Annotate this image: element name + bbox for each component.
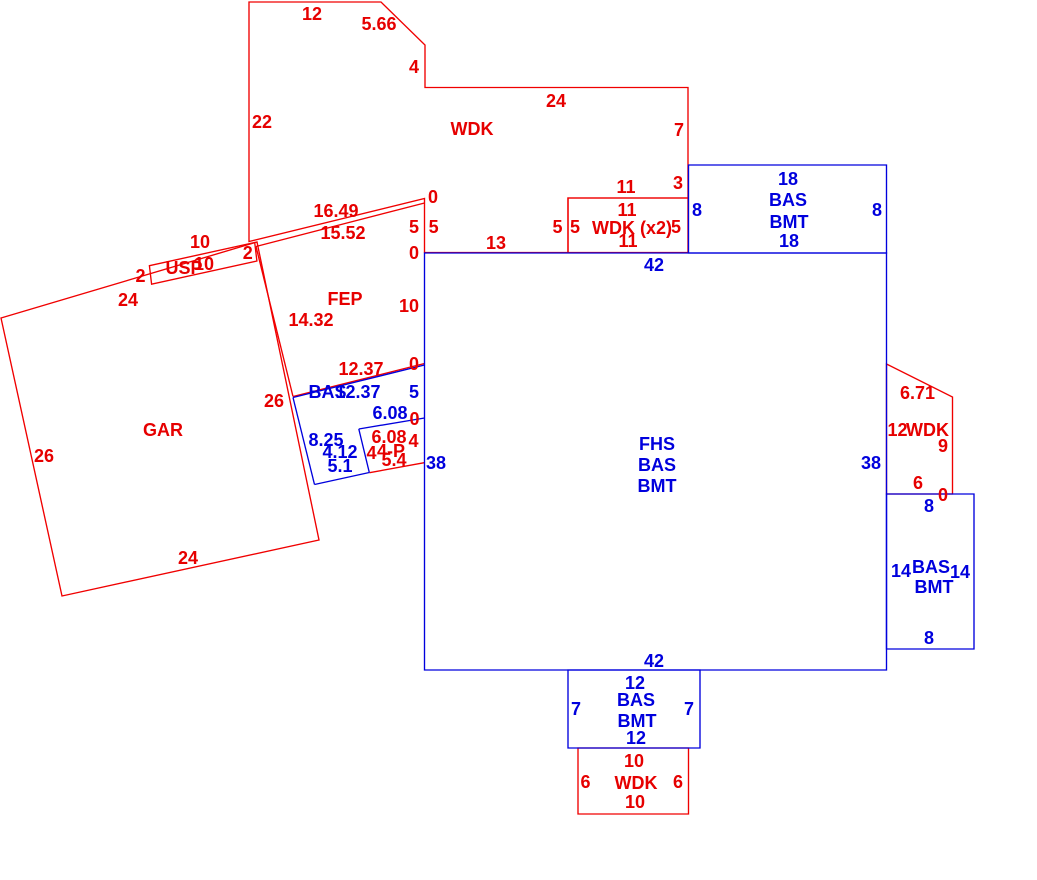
FEP left edge 14.32	[256, 247, 293, 397]
svg-text:6.71: 6.71	[900, 383, 935, 403]
WDK right polygon	[887, 364, 953, 494]
FEP bottom 12.37	[293, 364, 425, 397]
svg-text:BAS: BAS	[617, 690, 655, 710]
BAS/BMT right rect	[887, 494, 975, 649]
svg-text:11: 11	[618, 231, 637, 251]
svg-text:12: 12	[626, 728, 646, 748]
BAS/BMT top right rect	[689, 165, 887, 253]
svg-text:2: 2	[243, 243, 253, 263]
svg-text:4: 4	[366, 443, 376, 463]
svg-text:12: 12	[887, 420, 907, 440]
svg-text:10: 10	[190, 232, 210, 252]
blue labels	[308, 169, 970, 748]
svg-text:0: 0	[428, 187, 438, 207]
svg-text:5.66: 5.66	[361, 14, 396, 34]
svg-text:8: 8	[692, 200, 702, 220]
svg-text:24: 24	[546, 91, 566, 111]
svg-text:BMT: BMT	[638, 476, 677, 496]
USP rect	[149, 243, 257, 285]
svg-text:4: 4	[408, 431, 418, 451]
svg-text:10: 10	[625, 792, 645, 812]
svg-text:6: 6	[913, 473, 923, 493]
4P top 6.08	[359, 418, 425, 429]
WDK top big polygon	[249, 2, 688, 253]
svg-text:0: 0	[409, 243, 419, 263]
svg-text:15.52: 15.52	[320, 223, 365, 243]
svg-text:22: 22	[252, 112, 272, 132]
WDK bottom rect	[578, 748, 689, 814]
svg-text:38: 38	[861, 453, 881, 473]
BAS bottom 5.1	[315, 473, 370, 485]
svg-text:5: 5	[552, 217, 562, 237]
svg-text:6: 6	[673, 772, 683, 792]
WDK (x2) rect	[568, 198, 688, 253]
svg-text:5: 5	[429, 217, 439, 237]
svg-text:5: 5	[671, 217, 681, 237]
svg-text:18: 18	[778, 169, 798, 189]
svg-text:42: 42	[644, 255, 664, 275]
svg-text:WDK: WDK	[451, 119, 494, 139]
svg-text:12.37: 12.37	[335, 382, 380, 402]
FEP top edge 15.52	[256, 203, 425, 247]
svg-text:2: 2	[135, 266, 145, 286]
svg-text:4: 4	[409, 57, 419, 77]
svg-text:14: 14	[891, 561, 911, 581]
svg-text:5: 5	[570, 217, 580, 237]
svg-text:BAS: BAS	[638, 455, 676, 475]
4P left 4.12	[359, 429, 370, 473]
svg-text:11: 11	[617, 200, 636, 220]
svg-text:3: 3	[673, 173, 683, 193]
svg-text:6: 6	[580, 772, 590, 792]
main FHS/BAS/BMT rect	[425, 253, 887, 670]
svg-text:8: 8	[872, 200, 882, 220]
svg-text:10: 10	[194, 254, 214, 274]
svg-text:5.4: 5.4	[381, 450, 406, 470]
svg-text:12: 12	[302, 4, 322, 24]
svg-text:FHS: FHS	[639, 434, 675, 454]
svg-text:FEP: FEP	[327, 289, 362, 309]
svg-text:13: 13	[486, 233, 506, 253]
svg-text:5: 5	[409, 382, 419, 402]
svg-text:10: 10	[399, 296, 419, 316]
svg-text:24: 24	[178, 548, 198, 568]
svg-text:24: 24	[118, 290, 138, 310]
svg-text:9: 9	[938, 436, 948, 456]
svg-text:5.1: 5.1	[327, 456, 352, 476]
svg-text:12.37: 12.37	[338, 359, 383, 379]
BAS left 8.25	[293, 398, 315, 485]
svg-text:16.49: 16.49	[313, 201, 358, 221]
blue shapes	[293, 165, 974, 748]
svg-text:7: 7	[571, 699, 581, 719]
svg-text:11: 11	[616, 177, 635, 197]
svg-text:6.08: 6.08	[372, 403, 407, 423]
svg-text:8: 8	[924, 496, 934, 516]
svg-text:GAR: GAR	[143, 420, 183, 440]
svg-text:BAS: BAS	[912, 557, 950, 577]
svg-text:8: 8	[924, 628, 934, 648]
svg-text:18: 18	[779, 231, 799, 251]
svg-text:BMT: BMT	[770, 212, 809, 232]
4-P red bottom edge	[370, 463, 425, 473]
svg-text:0: 0	[409, 409, 419, 429]
GAR polygon	[1, 242, 319, 596]
svg-text:38: 38	[426, 453, 446, 473]
svg-text:10: 10	[624, 751, 644, 771]
svg-text:26: 26	[264, 391, 284, 411]
svg-text:WDK: WDK	[615, 773, 658, 793]
svg-text:7: 7	[674, 120, 684, 140]
svg-text:7: 7	[684, 699, 694, 719]
BAS small: top diagonal 12.37	[293, 365, 425, 398]
svg-text:14.32: 14.32	[288, 310, 333, 330]
svg-text:5: 5	[409, 217, 419, 237]
svg-text:0: 0	[938, 485, 948, 505]
svg-text:BAS: BAS	[769, 190, 807, 210]
svg-text:BMT: BMT	[915, 577, 954, 597]
svg-text:0: 0	[409, 354, 419, 374]
svg-text:26: 26	[34, 446, 54, 466]
BAS/BMT bottom rect	[568, 670, 700, 748]
svg-text:42: 42	[644, 651, 664, 671]
